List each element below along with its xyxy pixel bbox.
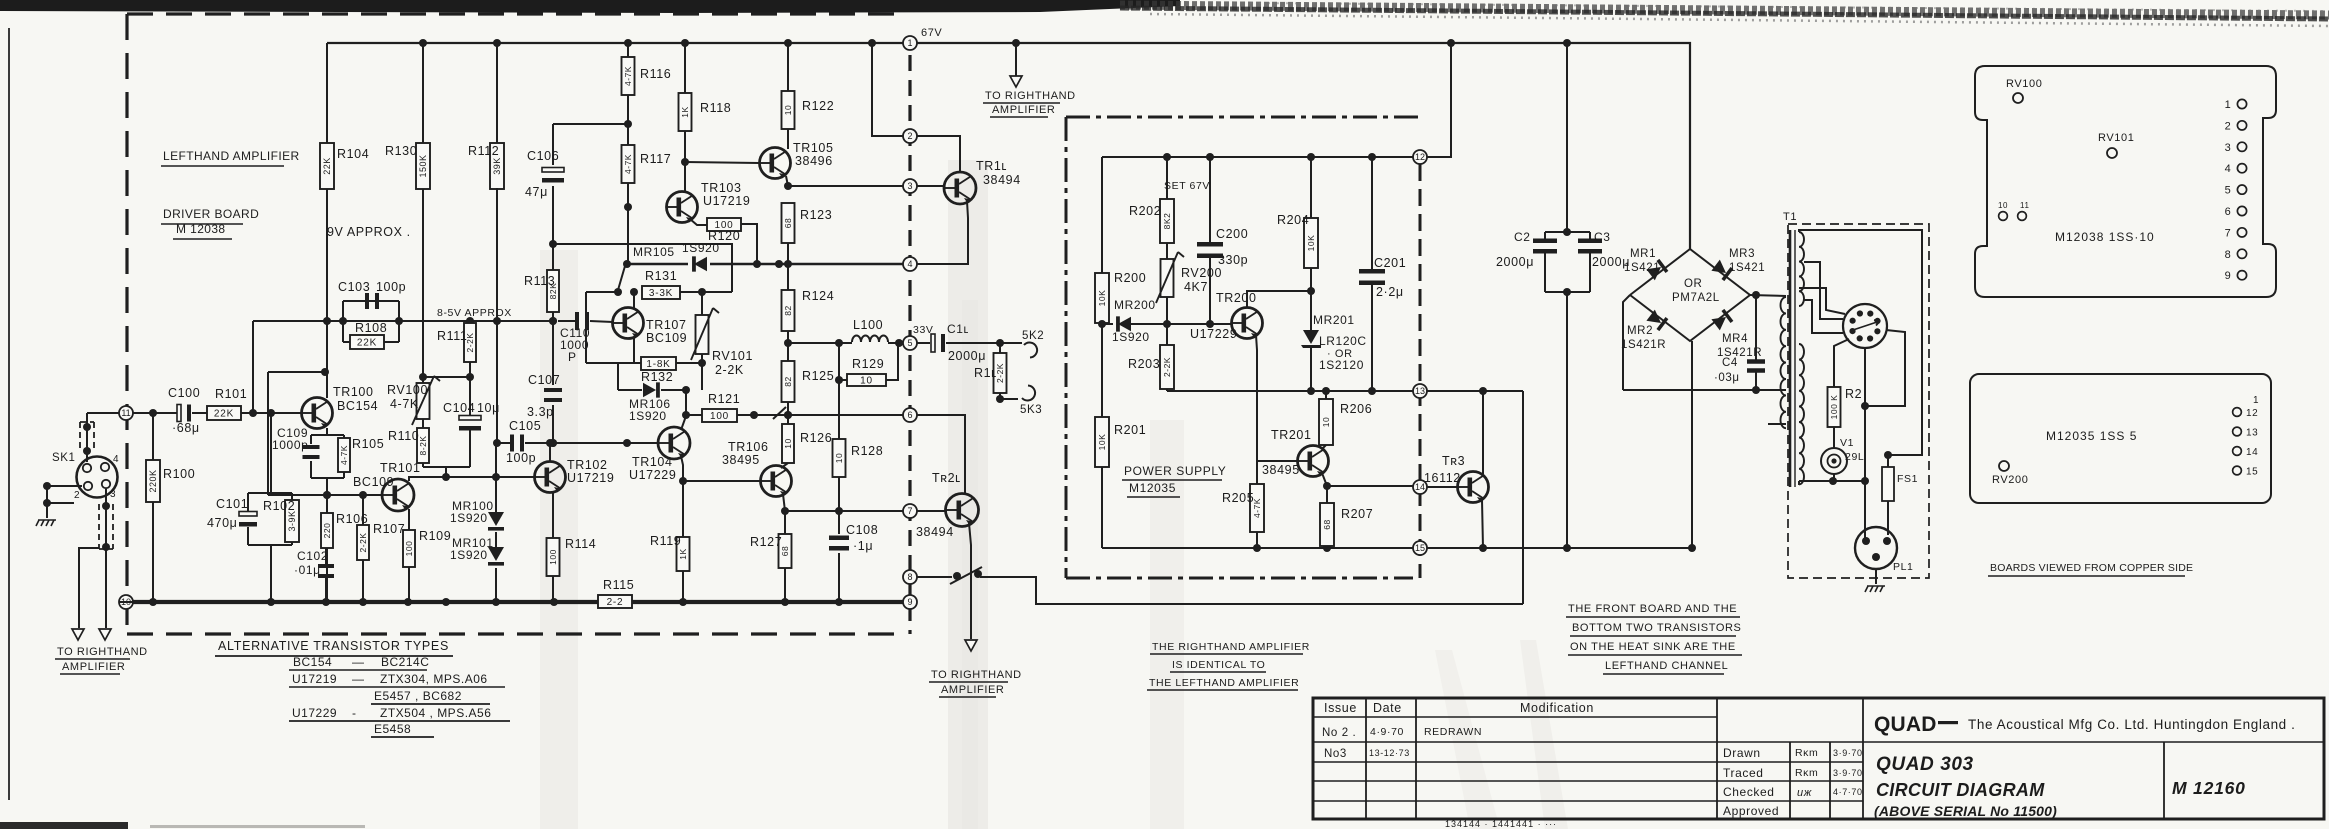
wire TR200 emitter to TR201 — [1256, 335, 1257, 461]
node 8 — [903, 570, 917, 584]
wire TR103 emitter to R120 — [690, 219, 707, 225]
wire C105 / TR104 base line — [497, 442, 510, 444]
switch contact at node8 — [950, 567, 982, 584]
svg-text:4: 4 — [113, 454, 119, 465]
svg-text:·03μ: ·03μ — [1714, 372, 1740, 384]
svg-text:1S421R: 1S421R — [1621, 339, 1666, 351]
svg-text:MR201: MR201 — [1313, 313, 1355, 327]
svg-text:470μ: 470μ — [207, 516, 237, 530]
svg-text:MR105: MR105 — [633, 245, 675, 259]
wire TR201 base — [1257, 460, 1297, 462]
svg-text:U17219: U17219 — [567, 471, 614, 485]
wire R121 left — [686, 414, 702, 416]
svg-text:134144 · 1441441 · ···: 134144 · 1441441 · ··· — [1445, 819, 1557, 829]
transistor TR102 — [535, 462, 566, 493]
wire node12 to top rail — [1427, 43, 1451, 157]
capacitor C103 / resistor R108 bracket — [343, 300, 399, 302]
resistor R113 — [547, 270, 559, 312]
junction input — [249, 409, 257, 417]
wire bridge bottom to 0V line — [1691, 341, 1693, 548]
svg-text:R206: R206 — [1340, 402, 1372, 416]
svg-text:M 12038: M 12038 — [176, 222, 226, 236]
dots tr102 base line — [492, 473, 500, 481]
dots node15 line — [1479, 544, 1487, 552]
svg-text:1: 1 — [2225, 99, 2232, 111]
capacitor C105 — [510, 435, 514, 452]
arrow to righthand amplifier (output) — [965, 640, 977, 651]
svg-text:THE LEFTHAND AMPLIFIER: THE LEFTHAND AMPLIFIER — [1149, 677, 1299, 689]
svg-text:R128: R128 — [851, 444, 883, 458]
svg-text:C104: C104 — [443, 401, 475, 415]
node 2 — [903, 129, 917, 143]
dot R123 top — [784, 182, 792, 190]
svg-text:TR106: TR106 — [728, 440, 769, 454]
svg-text:38496: 38496 — [795, 154, 833, 168]
wire TR105 base — [685, 162, 759, 163]
resistor R107 — [362, 560, 364, 602]
junction TR101 base line — [323, 491, 331, 499]
svg-text:V1: V1 — [1840, 437, 1854, 449]
resistor R128 — [833, 439, 846, 477]
potentiometer RV100 — [417, 383, 430, 419]
svg-text:—: — — [352, 655, 365, 669]
svg-text:R105: R105 — [352, 437, 384, 451]
svg-text:14: 14 — [2246, 447, 2258, 458]
svg-text:2: 2 — [74, 490, 80, 501]
svg-text:TO RIGHTHAND: TO RIGHTHAND — [931, 669, 1022, 681]
resistor R201 — [1095, 417, 1109, 467]
resistor R124 — [782, 290, 795, 331]
wire R118 to TR103 — [684, 131, 686, 192]
svg-text:IS IDENTICAL TO: IS IDENTICAL TO — [1172, 659, 1265, 671]
svg-text:13: 13 — [2246, 428, 2258, 439]
sheet left edge line — [8, 28, 10, 800]
column R112/MR100/MR101 — [496, 188, 498, 321]
svg-text:2-2K: 2-2K — [715, 363, 744, 377]
shield dots pin3 — [102, 502, 110, 510]
transformer primary winding lower — [1799, 344, 1804, 484]
node 1 — [903, 36, 917, 50]
resistor R129 — [847, 374, 886, 386]
svg-text:R111: R111 — [437, 329, 467, 343]
svg-text:8: 8 — [2225, 249, 2232, 261]
svg-text:R108: R108 — [355, 321, 387, 335]
svg-text:220K: 220K — [148, 469, 158, 492]
svg-text:3·9·70: 3·9·70 — [1833, 748, 1863, 758]
wire TR106 base — [683, 480, 760, 482]
wire TR104 emitter column — [681, 456, 683, 537]
svg-text:68: 68 — [1322, 519, 1332, 529]
svg-text:1S920: 1S920 — [450, 548, 488, 562]
svg-text:R121: R121 — [708, 392, 740, 406]
wire TR2L emitter down — [969, 523, 971, 639]
wire socket taps to primary — [1804, 262, 1843, 319]
svg-text:ON THE HEAT SINK ARE TH: ON THE HEAT SINK ARE THE — [1570, 641, 1736, 653]
svg-text:M12035: M12035 — [1129, 481, 1176, 495]
svg-text:U17229: U17229 — [1190, 327, 1237, 341]
svg-text:3-3K: 3-3K — [649, 288, 673, 299]
svg-text:R101: R101 — [215, 387, 247, 401]
svg-text:4: 4 — [2225, 163, 2232, 175]
dot fuse top — [1884, 451, 1892, 459]
wire C109/R105 bracket — [311, 434, 344, 436]
junction 8.5V line — [323, 317, 331, 325]
svg-text:9V APPROX .: 9V APPROX . — [327, 225, 411, 239]
svg-text:U17229: U17229 — [629, 468, 676, 482]
transistor TR103 — [667, 192, 698, 223]
dots MR201 — [1307, 287, 1315, 295]
svg-text:C108: C108 — [846, 523, 878, 537]
svg-text:3: 3 — [2225, 142, 2232, 154]
dot bridge bottom 0V — [1688, 544, 1696, 552]
svg-text:3-9K: 3-9K — [287, 510, 297, 531]
svg-text:R113: R113 — [524, 274, 555, 288]
dots C2C3 — [1563, 228, 1571, 236]
svg-text:47μ: 47μ — [525, 185, 548, 199]
svg-text:1S920: 1S920 — [1112, 330, 1150, 344]
capacitor C107 — [544, 388, 562, 392]
wire node3 to TR1L base — [917, 185, 944, 187]
junction dots top rail — [419, 39, 427, 47]
wire TR201 emitter to node14 line — [1322, 473, 1327, 486]
svg-text:C4: C4 — [1722, 357, 1738, 369]
svg-text:CIRCUIT DIAGRAM: CIRCUIT DIAGRAM — [1876, 780, 2045, 800]
transistor TR104 — [658, 427, 690, 459]
svg-text:R104: R104 — [337, 147, 369, 161]
svg-text:AMPLIFIER: AMPLIFIER — [62, 661, 125, 673]
loop R131/R132 around TR107 — [586, 291, 618, 293]
svg-text:LR120C: LR120C — [1319, 334, 1367, 348]
node 5 — [903, 336, 917, 350]
transformer secondary winding — [1781, 297, 1786, 428]
dot R207 top — [1323, 482, 1331, 490]
svg-text:4: 4 — [907, 259, 912, 269]
dashed screen around pin3 wire — [98, 504, 100, 549]
svg-text:10: 10 — [860, 376, 873, 387]
dots MR106 line — [682, 386, 690, 394]
resistor R200 — [1095, 273, 1109, 323]
svg-text:22K: 22K — [214, 409, 234, 420]
svg-text:FS1: FS1 — [1897, 473, 1918, 485]
svg-text:MR2: MR2 — [1627, 325, 1653, 337]
wire node7 line — [785, 510, 903, 512]
svg-text:R106: R106 — [336, 512, 368, 526]
resistor R100 — [152, 413, 154, 460]
svg-text:TO RIGHTHAND: TO RIGHTHAND — [985, 90, 1076, 102]
svg-text:11: 11 — [2020, 201, 2030, 210]
capacitor C109 — [303, 445, 320, 449]
wire R106 R107 hang — [326, 495, 328, 513]
svg-text:4-7K: 4-7K — [623, 154, 633, 174]
resistor R117 — [622, 145, 635, 183]
svg-text:2: 2 — [907, 131, 912, 141]
wire node2 link to rail — [872, 43, 903, 136]
svg-text:Date: Date — [1373, 701, 1402, 715]
resistor R127 — [779, 534, 792, 568]
hole RV200 on panel — [1999, 461, 2009, 471]
svg-text:38495: 38495 — [1262, 463, 1300, 477]
svg-text:Issue: Issue — [1324, 701, 1357, 715]
svg-text:LEFTHAND CHANNEL: LEFTHAND CHANNEL — [1605, 660, 1728, 672]
column C106 R113 C107 — [553, 123, 628, 125]
node 14 — [1413, 480, 1427, 494]
svg-text:BC154: BC154 — [337, 399, 378, 413]
svg-text:R120: R120 — [708, 229, 740, 243]
dot V1 bottom — [1829, 477, 1837, 485]
wire SK1 pin3 down — [105, 489, 107, 628]
svg-text:8K2: 8K2 — [1162, 213, 1172, 230]
wire R124 bottom — [787, 331, 789, 361]
wire R116-R117 — [627, 95, 629, 145]
svg-text:TR201: TR201 — [1271, 428, 1312, 442]
svg-text:15: 15 — [1415, 543, 1425, 553]
svg-text:R202: R202 — [1129, 204, 1161, 218]
svg-text:1S920: 1S920 — [682, 241, 720, 255]
svg-text:·01μ: ·01μ — [294, 563, 321, 577]
resistor R119 — [677, 537, 690, 571]
dot TR105 base tap — [681, 158, 689, 166]
wire node8 switch to supply return — [917, 576, 952, 578]
resistor R114 — [547, 538, 560, 576]
potentiometer RV101 — [701, 292, 703, 315]
diode MR101 — [488, 547, 504, 561]
zener MR201 — [1310, 291, 1312, 330]
potentiometer RV100 and R110 column — [422, 377, 424, 383]
svg-text:1S421: 1S421 — [1729, 262, 1765, 274]
resistor R116 — [627, 43, 629, 57]
resistor R110 — [417, 428, 429, 463]
svg-text:C200: C200 — [1216, 227, 1248, 241]
mains plug PL1 — [1855, 527, 1897, 569]
svg-text:1000p: 1000p — [272, 438, 308, 452]
node 6 — [903, 408, 917, 422]
wire node5 to C1L — [917, 342, 930, 344]
svg-text:4·9·70: 4·9·70 — [1370, 726, 1404, 738]
wire R114 bottom — [552, 576, 554, 602]
svg-text:R114: R114 — [565, 537, 596, 551]
svg-text:RV101: RV101 — [2098, 132, 2134, 144]
fuse FS1 — [1882, 467, 1894, 501]
resistor R118 — [684, 43, 686, 93]
svg-text:Rᴋm: Rᴋm — [1795, 767, 1818, 779]
svg-text:38494: 38494 — [983, 173, 1021, 187]
transistor TR201 — [1298, 446, 1329, 477]
wire C104 bottom line — [423, 466, 470, 468]
svg-text:R112: R112 — [468, 144, 499, 158]
svg-text:TR101: TR101 — [380, 461, 421, 475]
wire R126 to TR106 collector — [781, 463, 788, 468]
transistor TR105 — [760, 148, 791, 179]
svg-text:PL1: PL1 — [1893, 561, 1913, 573]
svg-text:R122: R122 — [802, 99, 834, 113]
dot socket right tap — [1861, 402, 1869, 410]
svg-text:10K: 10K — [1306, 235, 1316, 252]
capacitor C102 — [325, 548, 327, 565]
dots tr104 base line — [493, 439, 501, 447]
diode MR100 — [488, 512, 504, 526]
capacitor C101 — [239, 512, 257, 517]
dot TR100 collector riser — [321, 368, 329, 376]
svg-text:·1μ: ·1μ — [853, 539, 873, 553]
dashed screen around pin1 wire — [79, 422, 81, 452]
svg-text:DRIVER BOARD: DRIVER BOARD — [163, 207, 259, 221]
transistor TR107 — [613, 308, 644, 339]
wire bridge right to transformer — [1750, 295, 1786, 296]
svg-text:9: 9 — [907, 597, 912, 607]
svg-text:R109: R109 — [419, 529, 451, 543]
lamp V1 — [1833, 427, 1835, 448]
dot TR106 base tap — [679, 477, 687, 485]
dot C201 bottom — [1368, 387, 1376, 395]
wire R117 to node4 line — [627, 183, 629, 264]
svg-text:7: 7 — [907, 506, 912, 516]
svg-text:R119: R119 — [650, 534, 681, 548]
diode MR2 — [1646, 309, 1668, 331]
dashed border right side (node column) — [908, 55, 911, 634]
svg-text:RV200: RV200 — [1992, 474, 2028, 486]
svg-text:Modification: Modification — [1520, 701, 1594, 715]
svg-text:TR100: TR100 — [333, 385, 374, 399]
dots R131 — [614, 288, 622, 296]
wire TR105 emitter to node3 line — [786, 176, 788, 186]
svg-text:4-7K: 4-7K — [623, 66, 633, 86]
wire TR106 emitter — [783, 494, 785, 511]
wire node7 to TR2L base — [917, 510, 945, 512]
voltage selector socket — [1843, 304, 1887, 348]
svg-text:LEFTHAND AMPLIFIER: LEFTHAND AMPLIFIER — [163, 149, 300, 163]
svg-text:OR: OR — [1684, 278, 1702, 290]
svg-text:R115: R115 — [603, 578, 634, 592]
svg-text:R126: R126 — [800, 431, 832, 445]
svg-text:2-2K: 2-2K — [1162, 357, 1172, 377]
wire socket to R2 — [1834, 339, 1849, 387]
svg-text:C101: C101 — [216, 497, 248, 511]
svg-text:R129: R129 — [852, 357, 884, 371]
svg-text:3: 3 — [907, 181, 912, 191]
svg-text:100 K: 100 K — [1829, 395, 1839, 420]
wire R120 to node4 line — [741, 224, 757, 264]
svg-text:R102: R102 — [263, 499, 295, 513]
svg-text:P: P — [568, 350, 577, 364]
svg-text:C201: C201 — [1374, 256, 1406, 270]
svg-text:REDRAWN: REDRAWN — [1424, 726, 1482, 738]
secondary winding bottom stub — [1768, 423, 1786, 425]
resistor R106 — [326, 548, 328, 602]
transistor TR106 — [761, 466, 792, 497]
dot C4 tap — [1752, 291, 1760, 299]
svg-text:TR105: TR105 — [793, 141, 834, 155]
svg-text:10: 10 — [783, 438, 793, 448]
wire TR200 collector to R204 — [1247, 291, 1311, 307]
svg-text:MR200: MR200 — [1114, 298, 1156, 312]
wire node5 line with L100 — [788, 342, 852, 344]
svg-text:10K: 10K — [1097, 290, 1107, 307]
svg-text:R123: R123 — [800, 208, 832, 222]
capacitor C201 — [1371, 157, 1373, 270]
bridge rectifier MR1-MR4 — [1630, 249, 1750, 341]
resistor R202 — [1166, 157, 1168, 199]
svg-text:6: 6 — [2225, 206, 2232, 218]
resistor R122 — [787, 43, 789, 91]
svg-text:16112: 16112 — [1424, 471, 1461, 485]
svg-text:2·2μ: 2·2μ — [1376, 285, 1404, 299]
wire TR102 collector — [549, 443, 551, 461]
wire R123 bottom — [787, 243, 789, 264]
dot R125/R126 — [784, 411, 792, 419]
wire node11 to SK1 pin1 — [86, 413, 88, 462]
dot TR103 base — [624, 203, 632, 211]
svg-text:29L: 29L — [1845, 451, 1864, 463]
wire socket right tap — [1865, 330, 1905, 406]
wire input line node 11 — [87, 412, 119, 414]
svg-text:68: 68 — [783, 218, 793, 228]
wire fuse branch — [1887, 455, 1889, 467]
wire R132 right — [676, 362, 702, 364]
wire TR107 emitter to R132 — [633, 337, 635, 363]
resistor R123 — [782, 203, 795, 243]
svg-text:5: 5 — [907, 338, 912, 348]
svg-text:TR103: TR103 — [701, 181, 742, 195]
svg-text:1K: 1K — [680, 106, 690, 117]
svg-text:E5458: E5458 — [374, 722, 411, 736]
svg-text:22K: 22K — [357, 338, 377, 349]
svg-text:R117: R117 — [640, 152, 671, 166]
wire RV100 top line — [423, 376, 470, 378]
svg-text:C105: C105 — [509, 419, 541, 433]
wire C2/C3 column — [1566, 43, 1568, 232]
svg-text:No3: No3 — [1324, 748, 1347, 760]
svg-text:U17219: U17219 — [703, 194, 750, 208]
capacitor C110 on 8.5V line — [558, 320, 575, 322]
node 7 — [903, 504, 917, 518]
transformer primary winding upper — [1799, 232, 1804, 306]
svg-text:8: 8 — [907, 572, 912, 582]
svg-text:R204: R204 — [1277, 213, 1309, 227]
svg-text:38495: 38495 — [722, 453, 760, 467]
svg-text:R118: R118 — [700, 101, 731, 115]
dots PS bottom — [1253, 544, 1261, 552]
wire PS inner box — [1102, 156, 1413, 158]
svg-text:3: 3 — [110, 489, 116, 500]
diode MR105 — [694, 257, 707, 271]
resistor R108 — [350, 335, 384, 349]
svg-text:·68μ: ·68μ — [172, 421, 200, 435]
svg-text:-: - — [352, 706, 357, 720]
wire TR3 collector — [1482, 391, 1484, 474]
diode MR3 — [1711, 259, 1733, 281]
svg-text:MR4: MR4 — [1722, 333, 1748, 345]
scanner edge strip bottom left — [0, 822, 128, 829]
svg-text:10: 10 — [1998, 201, 2008, 210]
svg-text:QUAD: QUAD — [1874, 713, 1937, 736]
dot C4 bottom — [1752, 386, 1760, 394]
wire R125 bottom — [787, 402, 789, 424]
svg-text:8-2K: 8-2K — [418, 436, 428, 456]
svg-text:10: 10 — [834, 453, 844, 463]
wire V1 to primary bottom — [1833, 474, 1835, 481]
wire riser x1523 — [1522, 391, 1524, 604]
svg-text:1S2120: 1S2120 — [1319, 358, 1364, 372]
capacitor C104 — [469, 377, 471, 417]
svg-text:Drawn: Drawn — [1723, 746, 1761, 760]
title block outer frame — [1313, 698, 2324, 819]
svg-text:1: 1 — [907, 38, 912, 48]
svg-text:C106: C106 — [527, 149, 559, 163]
title block horizontals — [1313, 717, 2324, 801]
capacitor C1L — [931, 334, 935, 352]
svg-text:10K: 10K — [1097, 434, 1107, 451]
svg-text:67V: 67V — [921, 27, 942, 39]
